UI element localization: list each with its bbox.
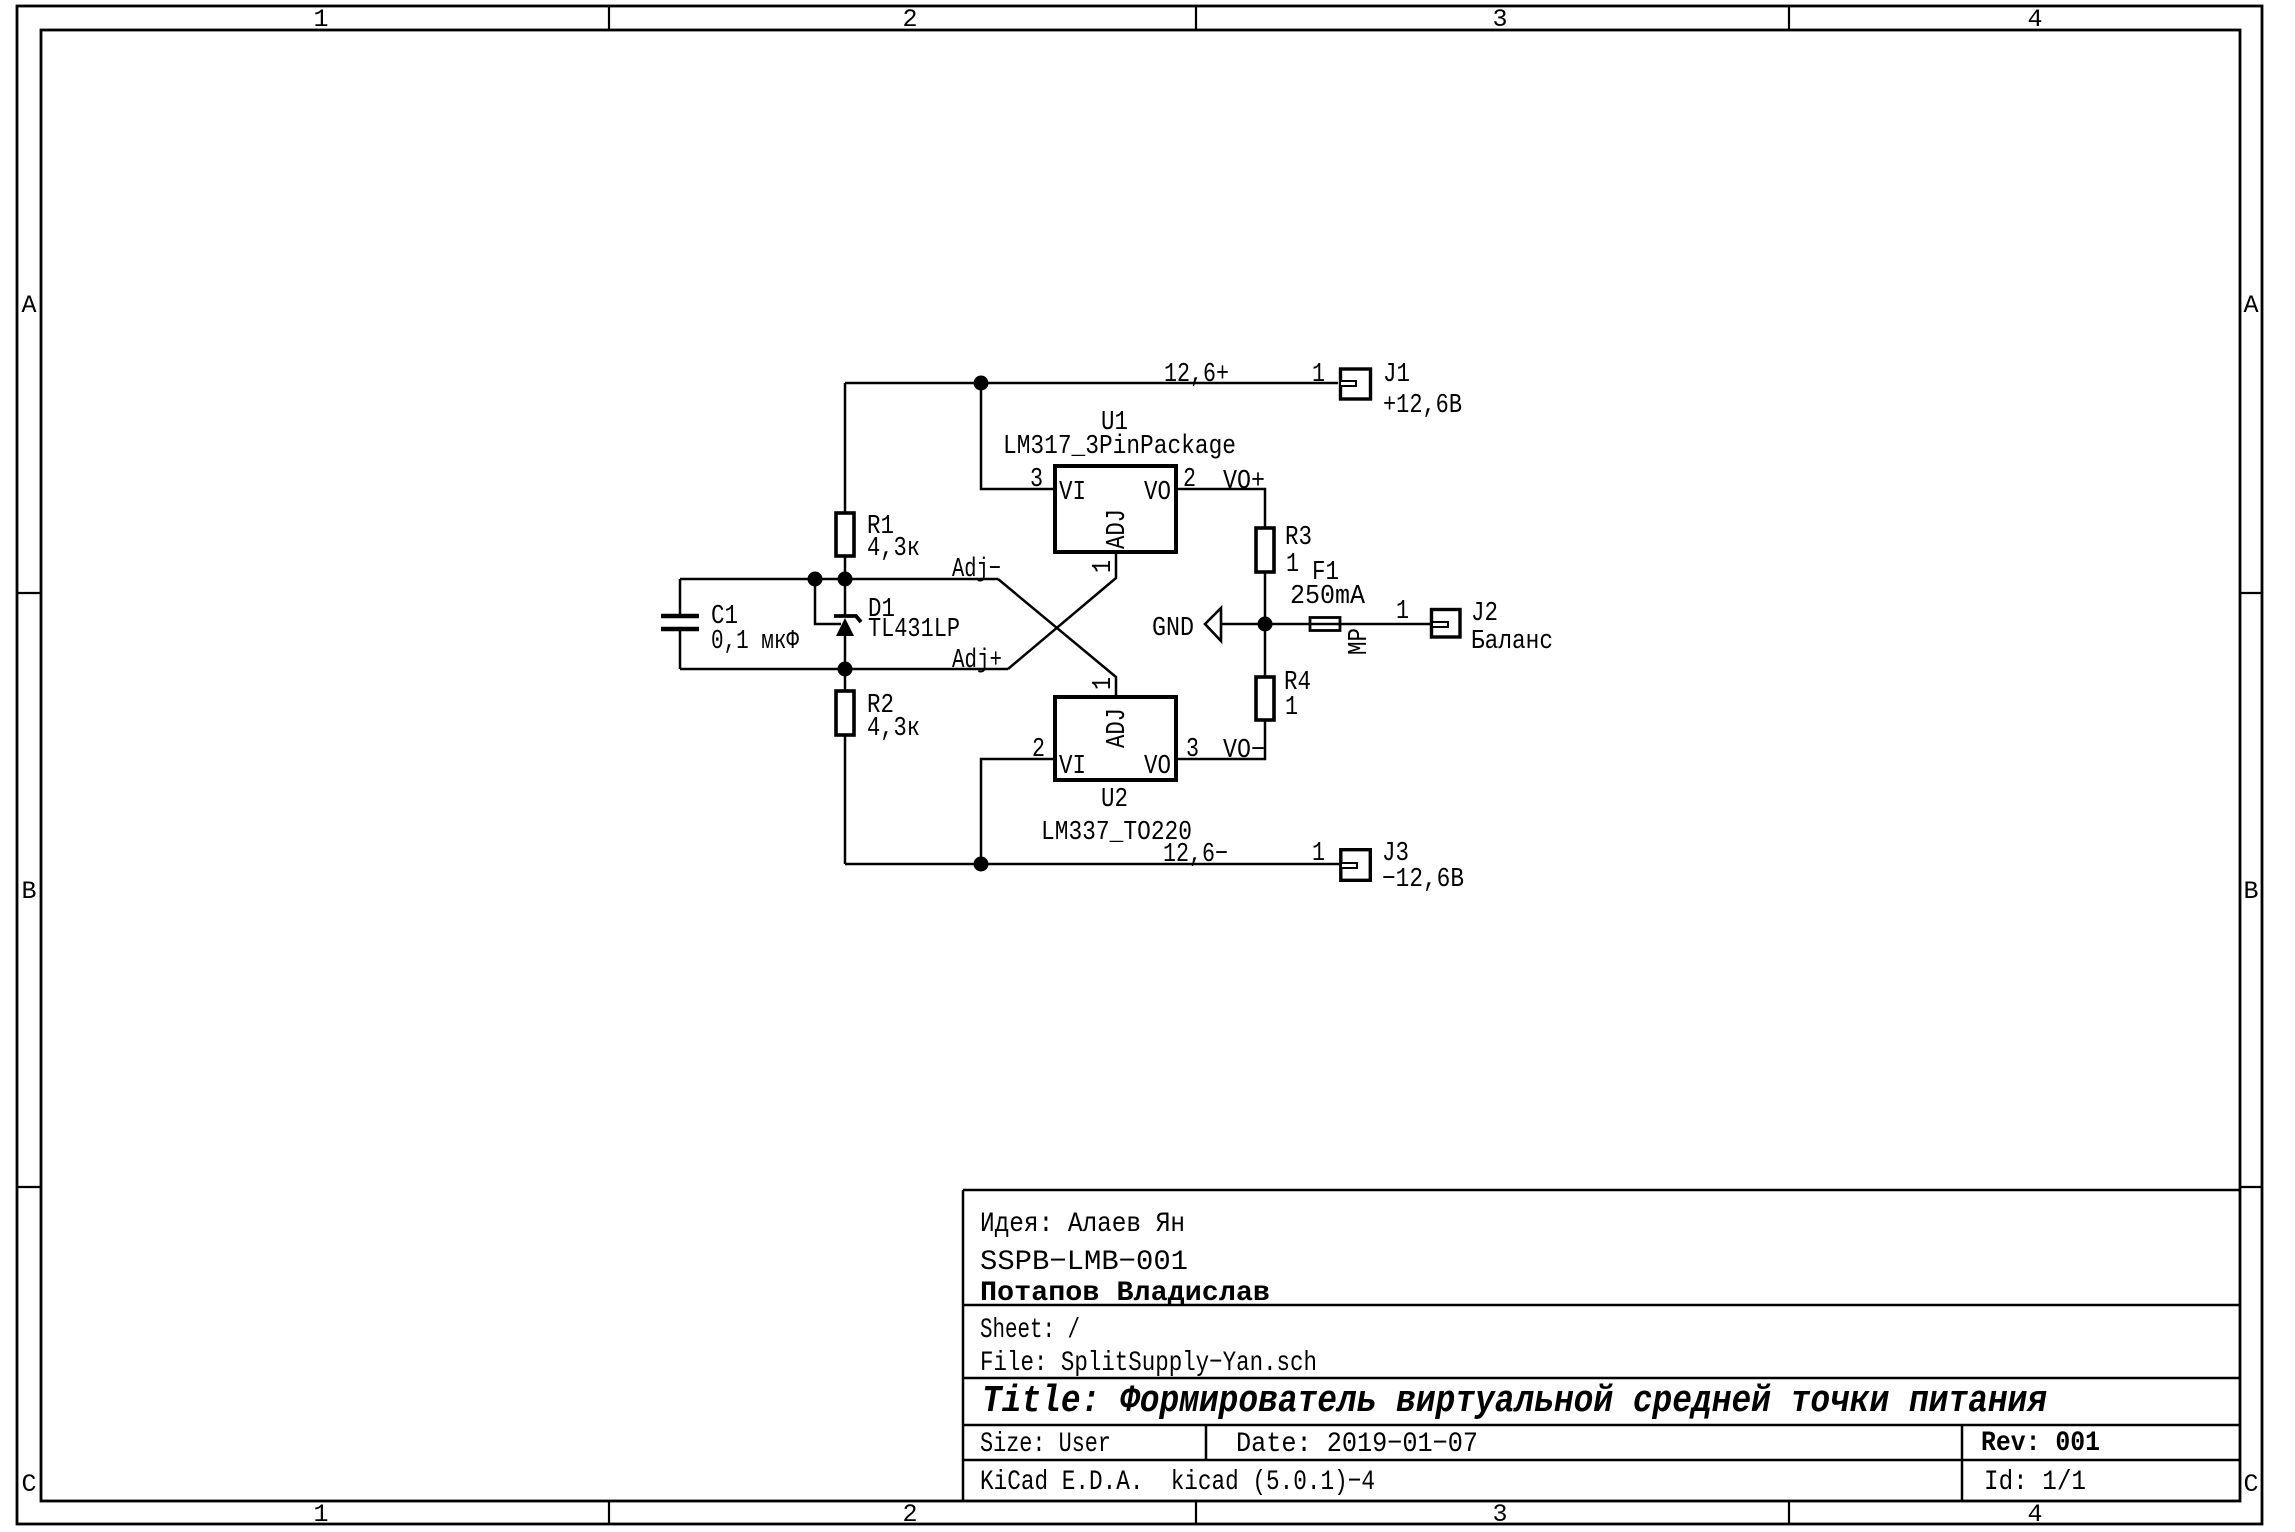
resistor R3 (1256, 528, 1274, 572)
title block row line 1 (963, 1304, 2240, 1307)
svg-text:12,6−: 12,6− (1163, 840, 1228, 870)
svg-text:Потапов Владислав: Потапов Владислав (980, 1278, 1270, 1309)
svg-text:C: C (21, 1470, 36, 1499)
title block divider rev/id (1961, 1425, 1964, 1502)
svg-text:Rev: 001: Rev: 001 (1981, 1428, 2100, 1459)
svg-text:1: 1 (1396, 597, 1409, 627)
junction node Adj- ref (808, 572, 823, 587)
svg-text:SSPB−LMB−001: SSPB−LMB−001 (980, 1247, 1188, 1278)
wire C1 top stem (679, 579, 682, 614)
title block outline (963, 1190, 2240, 1502)
wire C1 bottom stem (679, 631, 682, 669)
frame row tick left A/B (17, 592, 41, 594)
svg-text:LM317_3PinPackage: LM317_3PinPackage (1003, 432, 1236, 462)
wire R2 bottom to bottom rail (844, 735, 847, 864)
title block row line 3 (963, 1424, 2240, 1427)
regulator U2 (1055, 697, 1176, 780)
connector J1 (1341, 369, 1371, 399)
wire Adj- horizontal (680, 578, 998, 581)
svg-text:1: 1 (1285, 693, 1298, 723)
svg-text:1: 1 (1286, 550, 1299, 580)
frame row tick right B/C (2240, 1186, 2262, 1188)
diode D1 TL431LP (834, 616, 861, 622)
wire Adj+ diagonal to U1 ADJ (1008, 552, 1116, 669)
junction node top rail (974, 376, 989, 391)
svg-text:VO: VO (1144, 478, 1171, 508)
svg-text:4,3к: 4,3к (867, 714, 920, 744)
svg-text:2: 2 (1183, 465, 1196, 495)
svg-text:ADJ: ADJ (1103, 708, 1133, 748)
svg-text:MP: MP (1345, 628, 1375, 655)
svg-text:ADJ: ADJ (1103, 509, 1133, 549)
svg-text:4: 4 (2027, 5, 2042, 34)
wire 12,6- bottom rail (845, 863, 1339, 866)
svg-text:J2: J2 (1471, 599, 1498, 629)
svg-text:Id: 1/1: Id: 1/1 (1984, 1467, 2086, 1498)
svg-text:Идея: Алаев Ян: Идея: Алаев Ян (980, 1209, 1185, 1240)
svg-text:−12,6В: −12,6В (1382, 865, 1464, 895)
wire left rail top segment (844, 383, 847, 513)
svg-text:TL431LP: TL431LP (868, 615, 960, 645)
svg-text:1: 1 (1089, 560, 1119, 573)
connector J2 (1432, 610, 1461, 638)
wire 12,6+ top rail (845, 382, 1338, 385)
svg-text:B: B (2243, 877, 2258, 906)
svg-text:A: A (2243, 291, 2258, 320)
svg-text:1: 1 (313, 5, 328, 34)
svg-text:Size: User: Size: User (980, 1429, 1111, 1460)
svg-text:A: A (21, 291, 36, 320)
svg-text:B: B (21, 877, 36, 906)
title block divider size/date (1205, 1425, 1208, 1460)
svg-text:Sheet: /: Sheet: / (980, 1315, 1080, 1346)
svg-text:2: 2 (902, 5, 917, 34)
frame column tick bottom 1/2 (608, 1501, 610, 1524)
junction node Adj- main (838, 572, 853, 587)
wire J1 branch riser (981, 383, 1055, 489)
CIRCUIT WIRES (680, 383, 1430, 864)
svg-text:VO−: VO− (1223, 736, 1265, 766)
fuse F1 (1310, 618, 1340, 631)
resistor R1 (836, 513, 854, 556)
svg-text:File: SplitSupply−Yan.sch: File: SplitSupply−Yan.sch (980, 1348, 1317, 1379)
svg-text:3: 3 (1492, 5, 1507, 34)
frame column tick top 2/3 (1195, 6, 1197, 30)
svg-text:U2: U2 (1101, 785, 1128, 815)
svg-text:J1: J1 (1383, 360, 1410, 390)
wire D1 anode to Adj+ node (844, 636, 847, 691)
title block row line 4 (963, 1459, 2240, 1462)
svg-text:KiCad E.D.A. kicad (5.0.1)−4: KiCad E.D.A. kicad (5.0.1)−4 (980, 1467, 1375, 1498)
frame column tick bottom 2/3 (1195, 1501, 1197, 1524)
svg-text:12,6+: 12,6+ (1164, 360, 1229, 390)
svg-text:+12,6В: +12,6В (1383, 391, 1462, 421)
svg-text:250mA: 250mA (1290, 582, 1366, 612)
svg-text:2: 2 (1032, 735, 1045, 765)
wire GND to J2 (1221, 623, 1430, 626)
wire J3 branch riser (981, 759, 1055, 864)
wire R3 to R4 rail (1264, 572, 1267, 677)
svg-text:VI: VI (1059, 478, 1086, 508)
svg-text:VO+: VO+ (1223, 467, 1265, 497)
svg-text:Adj+: Adj+ (952, 646, 1002, 676)
svg-text:GND: GND (1152, 614, 1194, 644)
svg-text:C: C (2243, 1470, 2258, 1499)
svg-text:Title: Формирователь виртуальн: Title: Формирователь виртуальной средней… (982, 1380, 2047, 1423)
resistor R2 (836, 691, 854, 735)
svg-text:VI: VI (1059, 752, 1086, 782)
svg-text:0,1 мкФ: 0,1 мкФ (711, 627, 800, 657)
regulator U1 (1055, 466, 1176, 552)
svg-text:Баланс: Баланс (1471, 627, 1553, 657)
svg-text:3: 3 (1030, 465, 1043, 495)
connector J3 (1341, 850, 1371, 881)
junction node Adj+ (838, 662, 853, 677)
frame column tick top 1/2 (608, 6, 610, 30)
junction node bottom rail (974, 857, 989, 872)
wire R4 to U2 VO (1176, 720, 1265, 759)
junction node mid rail (1258, 617, 1273, 632)
svg-text:1: 1 (1312, 360, 1325, 390)
svg-text:1: 1 (1089, 677, 1119, 690)
svg-text:VO: VO (1144, 752, 1171, 782)
resistor R4 (1256, 677, 1274, 720)
TITLE BLOCK (963, 1190, 2240, 1502)
wire D1 ref branch (815, 579, 841, 624)
ground symbol GND (1205, 608, 1221, 641)
wire Adj- diagonal to U2 ADJ (998, 579, 1116, 697)
frame row tick right A/B (2240, 592, 2262, 594)
svg-text:Date: 2019−01−07: Date: 2019−01−07 (1236, 1429, 1478, 1460)
svg-text:Adj−: Adj− (952, 555, 1001, 585)
wire U1 VO to R3 (1176, 489, 1265, 528)
svg-text:2: 2 (902, 1500, 917, 1529)
title block row line 2 (963, 1377, 2240, 1380)
svg-text:1: 1 (313, 1500, 328, 1529)
frame row tick left B/C (17, 1186, 41, 1188)
svg-text:1: 1 (1312, 839, 1325, 869)
wire Adj+ horizontal (680, 668, 1008, 671)
svg-text:3: 3 (1186, 735, 1199, 765)
svg-text:4: 4 (2027, 1500, 2042, 1529)
frame column tick bottom 3/4 (1788, 1501, 1790, 1524)
svg-text:4,3к: 4,3к (867, 534, 920, 564)
svg-text:3: 3 (1492, 1500, 1507, 1529)
wire R1 bottom to D1 cathode (844, 556, 847, 616)
frame column tick top 3/4 (1788, 6, 1790, 30)
svg-text:R3: R3 (1285, 523, 1312, 553)
capacitor C1 (661, 614, 699, 619)
